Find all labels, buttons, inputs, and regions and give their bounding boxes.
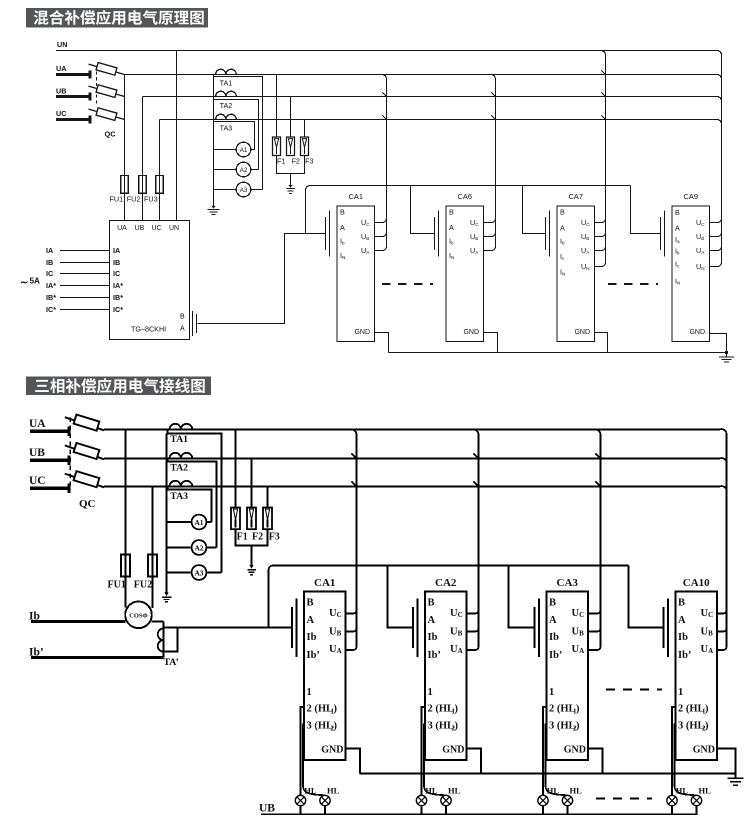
wire F join bottom [236, 529, 268, 565]
wire UA drop to FU1 [124, 75, 126, 176]
module CA10 connector bars bottom [662, 607, 664, 648]
svg-text:Ib: Ib [549, 632, 559, 643]
svg-text:CA10: CA10 [683, 577, 710, 589]
wire UB bus bottom [104, 458, 727, 463]
CT TA2 secondary bottom [167, 459, 217, 548]
ammeter A2 bottom [192, 540, 207, 555]
module CA1 lamp stubs [300, 806, 302, 815]
module CA1 box [337, 206, 375, 342]
svg-text:∼: ∼ [20, 278, 28, 289]
wire TA common [213, 77, 215, 206]
CT TA-prime secondary [164, 628, 269, 652]
ground bottom right [735, 774, 737, 779]
svg-text:FU1: FU1 [108, 580, 126, 591]
module CA7 pin hooks [595, 219, 606, 223]
svg-text:HL: HL [327, 786, 340, 796]
svg-text:Ib’: Ib’ [549, 650, 562, 661]
wire TA common bottom [166, 434, 168, 593]
module CA1 box bottom [304, 592, 346, 760]
wire drop to CA9 [631, 186, 661, 234]
wire Ib after meter [151, 620, 163, 622]
svg-text:UN: UN [169, 225, 179, 232]
arrester F2 bottom [247, 508, 256, 530]
svg-text:QC: QC [79, 498, 96, 510]
svg-text:GND: GND [693, 745, 715, 756]
ground F common [288, 185, 292, 188]
svg-text:UB: UB [56, 87, 66, 96]
CT TA3 bottom [170, 481, 193, 487]
svg-text:): ) [455, 704, 459, 715]
svg-text:GND: GND [354, 329, 370, 336]
svg-text:TA2: TA2 [170, 463, 188, 474]
CT TA3 secondary [214, 120, 255, 150]
controller U1 TG-8CKHI box [110, 221, 190, 340]
svg-text:): ) [334, 721, 338, 732]
svg-text:IC*: IC* [113, 305, 123, 314]
ground top right [726, 352, 728, 358]
dashes CA1-CA6 [382, 283, 433, 285]
svg-text:UC: UC [29, 475, 46, 487]
CT TA1 [216, 69, 237, 74]
svg-text:UB: UB [259, 803, 275, 815]
svg-text:F1: F1 [237, 532, 248, 543]
module CA2 lamp stubs [421, 806, 423, 815]
bundle riser right [721, 55, 723, 263]
arrester F2 [287, 137, 295, 156]
svg-text:UB: UB [135, 225, 145, 232]
fuse FU1 bottom [121, 555, 130, 577]
wire drop to CA2 bottom [388, 566, 414, 628]
module CA3 lamp stubs [542, 806, 544, 815]
module CA2 connector bars bottom [412, 607, 414, 648]
module CA3 lamp HL1 [538, 795, 548, 805]
svg-text:B: B [675, 208, 680, 217]
wire Ib lead [31, 620, 126, 623]
ammeter A1 [236, 142, 251, 157]
ground TA common bottom [164, 592, 168, 596]
wire F3 drop [304, 120, 306, 138]
svg-text:CA1: CA1 [349, 192, 363, 201]
svg-text:F3: F3 [269, 532, 280, 543]
svg-text:1: 1 [549, 687, 554, 698]
module CA1 lamp HL1 [295, 795, 305, 805]
wire F1 drop [276, 75, 278, 138]
svg-text:Ib: Ib [428, 632, 438, 643]
ammeter A3 bottom [192, 565, 207, 580]
svg-text:3 (HL: 3 (HL [307, 721, 334, 732]
wire drop to CA6 [411, 186, 435, 234]
wire FU1 drop bottom [125, 430, 127, 555]
wire UB lamp bus [261, 806, 697, 815]
svg-text:TA’: TA’ [164, 657, 179, 668]
wire UA bus [125, 74, 722, 79]
wire UC bus bottom [104, 486, 727, 491]
svg-text:B: B [560, 208, 565, 217]
svg-text:UC: UC [151, 225, 161, 232]
svg-text:2 (HL: 2 (HL [549, 704, 576, 715]
module CA1 GND wire bottom [346, 749, 361, 774]
wire GND chain top [375, 333, 727, 353]
svg-text:GND: GND [442, 745, 464, 756]
svg-text:FU2: FU2 [134, 580, 152, 591]
fuse FU2 [139, 176, 147, 194]
module CA10 lamp HL2 [691, 795, 701, 805]
module CA6 box [446, 206, 484, 342]
module CA2 lamp HL2 [441, 795, 451, 805]
fuse-switch QC pole C [89, 109, 125, 119]
svg-text:Ib: Ib [307, 632, 317, 643]
svg-text:FU3: FU3 [144, 195, 158, 204]
module CA9 box [672, 206, 710, 342]
svg-text:A1: A1 [240, 147, 248, 154]
wire UB bus [143, 96, 722, 101]
svg-text:TA1: TA1 [170, 434, 188, 445]
module CA6 pin hooks [484, 219, 496, 223]
svg-text:UA: UA [117, 225, 127, 232]
arrester F3 [301, 137, 309, 156]
wire UA bus bottom [104, 429, 727, 434]
svg-text:1: 1 [307, 687, 312, 698]
svg-text:HL: HL [448, 786, 461, 796]
wire UB drop to FU2 [142, 97, 144, 176]
svg-text:B: B [449, 208, 454, 217]
fuse-switch QC pole A bottom [65, 417, 104, 430]
svg-text:B: B [428, 598, 435, 609]
bundle riser bottom right [726, 435, 728, 648]
svg-text:1: 1 [678, 687, 683, 698]
module CA9 connector bars [660, 217, 662, 250]
arrester F1 bottom [231, 508, 240, 530]
dashes CA3-CA10 [606, 688, 662, 690]
module CA1 voltage riser [382, 75, 387, 247]
svg-text:A: A [549, 615, 557, 626]
svg-text:B: B [549, 598, 556, 609]
svg-text:TA2: TA2 [220, 101, 233, 110]
wire F2 drop bottom [251, 459, 253, 508]
svg-text:F3: F3 [305, 157, 313, 166]
CT TA1 secondary bottom [167, 430, 222, 573]
module CA7 connector bars [545, 217, 547, 250]
svg-text:GND: GND [574, 329, 590, 336]
svg-text:COSΦ: COSΦ [129, 613, 148, 620]
module CA9 pin hooks [710, 219, 722, 223]
svg-text:HL: HL [676, 786, 689, 796]
arrester F1 [273, 137, 281, 156]
module CA10 lamp HL1 [667, 795, 677, 805]
CT TA1 secondary [214, 75, 263, 190]
svg-text:IC: IC [113, 269, 120, 278]
controller current input stubs [60, 250, 110, 252]
module CA10 GND wire bottom [717, 749, 736, 774]
ammeter A3 [236, 182, 251, 197]
fuse-switch QC pole B bottom [65, 445, 104, 459]
module CA3 connector bars bottom [533, 607, 535, 648]
svg-text:A: A [428, 615, 436, 626]
svg-text:A1: A1 [194, 518, 203, 527]
module CA10 lamp wires [672, 707, 676, 795]
wire drop to CA7 [523, 186, 546, 234]
fuse-switch QC pole A [89, 64, 125, 74]
svg-text:B: B [340, 208, 345, 217]
svg-text:UN: UN [57, 40, 67, 49]
module CA3 GND wire bottom [588, 749, 603, 774]
svg-text:IA: IA [113, 246, 120, 255]
svg-text:A: A [180, 326, 185, 333]
module CA2 pin hooks bottom [467, 611, 479, 614]
svg-text:): ) [576, 704, 580, 715]
dashes lamps [596, 798, 652, 800]
svg-text:): ) [705, 704, 709, 715]
svg-text:A3: A3 [194, 569, 203, 578]
fuse FU3 [156, 176, 164, 194]
wire F2 drop [290, 97, 292, 138]
CT TA3 secondary bottom [167, 487, 212, 523]
svg-text:IC: IC [46, 269, 53, 278]
svg-text:2 (HL: 2 (HL [678, 704, 705, 715]
wire drop to CA3 bottom [509, 566, 535, 628]
arrester F3 bottom [263, 508, 272, 530]
CT TA2 secondary [214, 97, 259, 170]
module CA6 voltage riser [491, 75, 496, 247]
QC linkage dashed [96, 66, 98, 107]
wire UC drop to FU3 [159, 120, 161, 176]
svg-text:CA3: CA3 [557, 577, 579, 589]
svg-text:FU1: FU1 [110, 195, 124, 204]
wire CA1 feed [269, 627, 293, 629]
wire FU2 drop bottom [152, 487, 154, 555]
module CA7 box [557, 206, 595, 342]
svg-text:1: 1 [428, 687, 433, 698]
svg-text:Ib’: Ib’ [428, 650, 441, 661]
fuse-switch QC pole B [89, 86, 125, 96]
svg-text:IC*: IC* [46, 305, 56, 314]
dashes CA7-CA9 [608, 283, 658, 285]
module CA3 lamp wires [543, 707, 547, 795]
svg-text:A: A [449, 223, 454, 232]
svg-text:HL: HL [699, 786, 712, 796]
CT TA2 [216, 91, 237, 96]
connector TG output bars [192, 311, 194, 336]
svg-text:A2: A2 [194, 544, 203, 553]
title bar 1 [26, 8, 208, 28]
module CA2 lamp wires [422, 707, 426, 795]
wire TG B-A to CA1 [198, 234, 326, 324]
module CA10 pin hooks bottom [717, 611, 727, 614]
svg-text:A: A [675, 224, 680, 233]
module CA6 connector bars [434, 217, 436, 250]
svg-text:A3: A3 [240, 187, 248, 194]
wire F3 drop bottom [267, 487, 269, 508]
svg-text:A: A [678, 615, 686, 626]
svg-text:F2: F2 [252, 532, 263, 543]
CT TA1 bottom [170, 424, 193, 430]
svg-text:B: B [678, 598, 685, 609]
svg-text:2 (HL: 2 (HL [307, 704, 334, 715]
svg-text:B: B [180, 314, 185, 321]
module CA2 GND wire bottom [467, 749, 482, 774]
module CA3 voltage riser bottom [596, 430, 601, 648]
wire F join [277, 156, 305, 186]
svg-text:HL: HL [547, 786, 560, 796]
wire drop to CA10 bottom [629, 566, 664, 628]
svg-text:UC: UC [56, 109, 66, 118]
module CA1 voltage riser bottom [352, 430, 357, 648]
svg-text:TA1: TA1 [220, 79, 233, 88]
wire F1 drop bottom [235, 430, 237, 508]
svg-text:IA*: IA* [46, 281, 56, 290]
title bar 2 [26, 377, 211, 396]
svg-text:TG–8CKHI: TG–8CKHI [131, 325, 166, 334]
svg-text:F2: F2 [292, 157, 300, 166]
svg-text:UB: UB [29, 447, 45, 459]
wire Ib-prime lead [31, 656, 164, 659]
module CA1 pin hooks [375, 219, 387, 223]
module CA1 connector bars bottom [291, 607, 293, 648]
svg-text:CA9: CA9 [684, 192, 698, 201]
svg-text:): ) [705, 721, 709, 732]
svg-text:HL: HL [425, 786, 438, 796]
svg-text:TA3: TA3 [220, 124, 233, 133]
module CA3 pin hooks bottom [588, 611, 601, 614]
ground F common bottom [249, 565, 253, 569]
ammeter A2 [236, 162, 251, 177]
svg-text:IA*: IA* [113, 281, 123, 290]
svg-text:HL: HL [304, 786, 317, 796]
svg-text:GND: GND [463, 329, 479, 336]
svg-text:): ) [576, 721, 580, 732]
svg-text:): ) [455, 721, 459, 732]
module CA10 box bottom [676, 592, 718, 760]
wire UC bus [160, 119, 722, 124]
svg-text:Ib: Ib [678, 632, 688, 643]
svg-text:CA1: CA1 [314, 577, 335, 589]
module CA1 connector bars [325, 217, 327, 250]
wire GND chain bottom [360, 773, 736, 775]
svg-text:CA2: CA2 [435, 577, 457, 589]
svg-text:A2: A2 [240, 167, 248, 174]
svg-text:TA3: TA3 [170, 491, 188, 502]
svg-text:IA: IA [46, 246, 53, 255]
wire UN drop to controller [176, 51, 178, 221]
module CA3 box bottom [547, 592, 589, 760]
svg-text:A: A [340, 223, 345, 232]
svg-text:5A: 5A [30, 277, 41, 286]
svg-text:HL: HL [570, 786, 583, 796]
module CA1 lamp wires [301, 707, 305, 795]
svg-text:UA: UA [56, 64, 66, 73]
ammeter A1 bottom [192, 515, 207, 530]
svg-text:A: A [560, 223, 565, 232]
svg-text:FU2: FU2 [127, 195, 141, 204]
svg-text:QC: QC [105, 130, 117, 139]
svg-text:A: A [307, 615, 315, 626]
svg-text:3 (HL: 3 (HL [678, 721, 705, 732]
wire comm daisy riser [306, 186, 631, 234]
svg-text:IB*: IB* [46, 293, 56, 302]
module CA7 voltage riser [601, 51, 606, 263]
CT TA2 bottom [170, 453, 193, 459]
svg-text:GND: GND [321, 745, 343, 756]
module CA10 lamp stubs [671, 806, 673, 815]
svg-text:Ib’: Ib’ [678, 650, 691, 661]
svg-text:3 (HL: 3 (HL [549, 721, 576, 732]
svg-text:3 (HL: 3 (HL [428, 721, 455, 732]
svg-text:UA: UA [29, 418, 46, 430]
meter cos phi [125, 602, 152, 629]
fuse FU1 [121, 176, 129, 194]
svg-text:CA6: CA6 [458, 192, 472, 201]
svg-text:GND: GND [689, 329, 705, 336]
module CA1 lamp HL2 [320, 795, 330, 805]
svg-text:B: B [307, 598, 314, 609]
CT TA-prime primary [163, 622, 165, 658]
svg-text:IB: IB [46, 258, 53, 267]
svg-text:Ib’: Ib’ [307, 650, 320, 661]
QC linkage dashed bottom [69, 418, 71, 491]
svg-text:): ) [334, 704, 338, 715]
ground TA common [211, 206, 215, 209]
CT TA3 [216, 114, 237, 119]
svg-text:2 (HL: 2 (HL [428, 704, 455, 715]
svg-text:IB: IB [113, 258, 120, 267]
wire UN bus [56, 50, 722, 55]
fuse FU2 bottom [148, 555, 157, 577]
wire comm daisy bottom [269, 566, 629, 628]
svg-text:IB*: IB* [113, 293, 123, 302]
svg-text:GND: GND [564, 745, 586, 756]
svg-text:CA7: CA7 [569, 192, 583, 201]
svg-text:F1: F1 [277, 157, 285, 166]
module CA2 box bottom [425, 592, 467, 760]
fuse-switch QC pole C bottom [65, 474, 104, 488]
module CA2 voltage riser bottom [474, 430, 479, 648]
module CA1 pin hooks bottom [346, 611, 357, 614]
module CA2 lamp HL1 [416, 795, 426, 805]
module CA3 lamp HL2 [562, 795, 572, 805]
